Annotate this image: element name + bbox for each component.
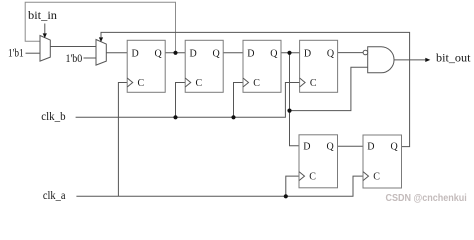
flip-flop FF3 box <box>243 40 281 92</box>
arrowhead bit_in select into mux M1 <box>43 33 47 38</box>
svg-text:CSDN @cnchenkui: CSDN @cnchenkui <box>386 192 467 204</box>
svg-text:Q: Q <box>155 49 163 60</box>
AND gate U1 body <box>368 47 394 73</box>
wire bit_in select line into mux M1 <box>44 24 46 35</box>
AND gate U1 input bubble <box>363 50 368 55</box>
wire FF3 Q to FF4 D <box>281 52 300 54</box>
wire feedback from FF1 Q up and across top to mux M1 input <box>25 2 175 53</box>
svg-text:clk_b: clk_b <box>41 111 66 123</box>
junction clk_a tap DFF5 <box>284 194 288 198</box>
svg-text:D: D <box>303 142 310 153</box>
wire mux M2 output to FF1 D <box>106 52 127 54</box>
svg-text:1'b0: 1'b0 <box>66 53 83 65</box>
junction FF3 Q net tee <box>287 109 291 113</box>
svg-text:bit_out: bit_out <box>436 52 471 64</box>
flip-flop FF1 clock wedge <box>127 78 133 87</box>
svg-text:D: D <box>190 49 197 60</box>
svg-text:C: C <box>253 78 260 89</box>
svg-text:1'b1: 1'b1 <box>8 47 24 59</box>
mux M1 <box>40 36 50 62</box>
arrowhead select into mux M2 <box>99 37 103 42</box>
svg-text:C: C <box>196 78 203 89</box>
wire clk_b tap to FF3 clock <box>234 83 244 118</box>
wire clk_a line to DFF6 clock <box>76 176 363 196</box>
junction clk_b tap FF3 <box>231 115 235 119</box>
wire clk_b tap to FF2 clock <box>176 83 186 118</box>
svg-text:C: C <box>309 172 316 183</box>
mux M2 <box>96 40 106 66</box>
flip-flop FF2 clock wedge <box>185 78 191 87</box>
wire FF3 Q net down to DFF5 D <box>290 53 300 146</box>
svg-text:C: C <box>138 78 145 89</box>
svg-text:D: D <box>304 49 311 60</box>
svg-text:Q: Q <box>327 142 335 153</box>
wire 1'b1 to mux M1 <box>26 52 41 54</box>
svg-text:Q: Q <box>213 49 221 60</box>
svg-text:Q: Q <box>327 49 335 60</box>
wire mux M1 output to mux M2 input <box>50 46 96 48</box>
wire 1'b0 to mux M2 <box>84 57 97 59</box>
wire FF2 Q to FF3 D <box>223 52 243 54</box>
svg-text:D: D <box>367 142 374 153</box>
flip-flop FF2 box <box>185 40 223 92</box>
svg-text:D: D <box>132 49 139 60</box>
svg-text:C: C <box>373 172 380 183</box>
svg-text:clk_a: clk_a <box>43 190 66 202</box>
svg-text:Q: Q <box>270 49 278 60</box>
arrowhead bit_out <box>425 58 430 62</box>
wire clk_b line to FF4 clock <box>76 83 300 118</box>
flip-flop FF4 box <box>300 40 338 92</box>
wire FF1 Q to FF2 D <box>165 52 185 54</box>
flip-flop DFF6 box <box>363 135 402 188</box>
wire DFF5 Q to DFF6 D <box>338 145 364 147</box>
flip-flop DFF5 box <box>299 135 338 188</box>
wire select net from DFF6 Q up right side and across to mux M2 select <box>101 32 410 146</box>
flip-flop DFF5 clock wedge <box>299 172 305 181</box>
svg-text:bit_in: bit_in <box>28 10 57 22</box>
junction clk_b tap FF2 <box>173 115 177 119</box>
junction FF3 Q node <box>287 51 291 55</box>
flip-flop FF4 clock wedge <box>300 78 306 87</box>
flip-flop FF1 box <box>127 40 165 92</box>
svg-text:Q: Q <box>391 142 399 153</box>
svg-text:C: C <box>310 78 317 89</box>
flip-flop DFF6 clock wedge <box>363 172 369 181</box>
svg-text:D: D <box>247 49 254 60</box>
flip-flop FF3 clock wedge <box>243 78 249 87</box>
wire FF3 Q net branch to AND gate lower input <box>290 67 368 110</box>
wire FF4 Q to AND gate inverted input <box>338 52 364 54</box>
wire clk_a tap to DFF5 clock <box>286 176 299 196</box>
wire clk_a to FF1 clock <box>118 83 127 197</box>
wire AND gate output to bit_out <box>394 59 426 61</box>
junction FF1 Q node <box>173 51 177 55</box>
